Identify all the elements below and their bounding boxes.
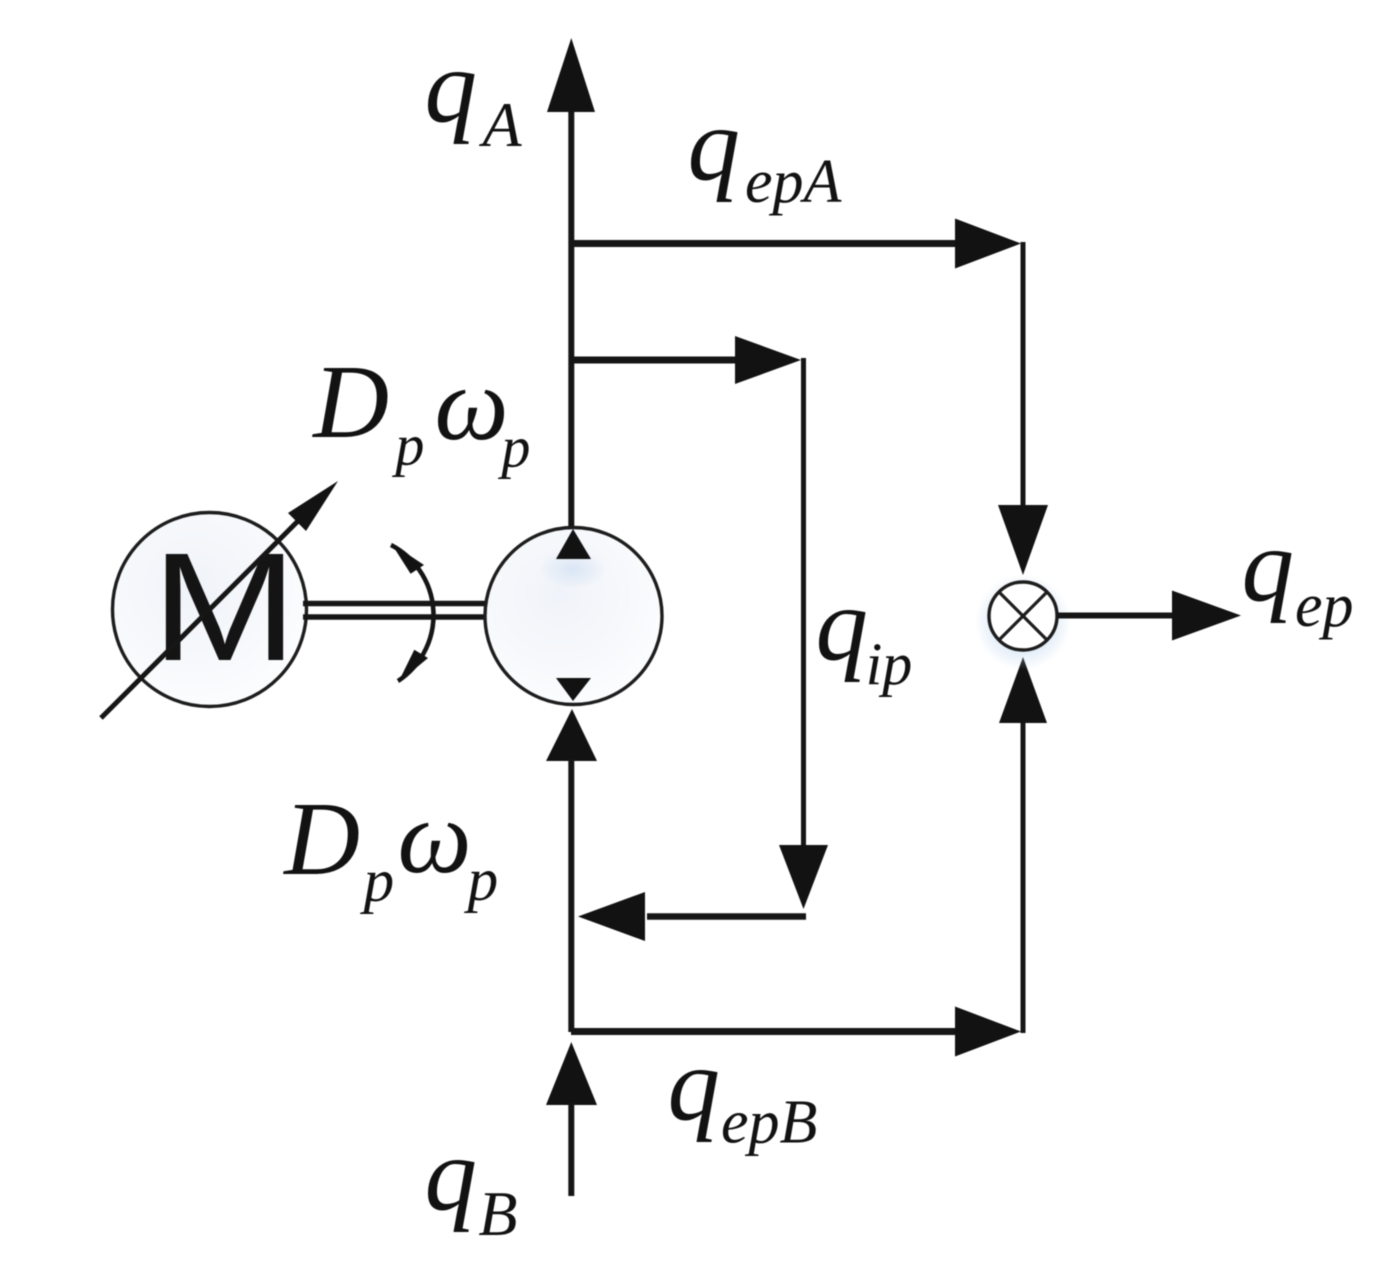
arrowhead q_ip right [735, 336, 801, 384]
svg-text:q: q [816, 566, 869, 683]
svg-text:ep: ep [1295, 572, 1354, 640]
pump top port blue blush [539, 549, 607, 589]
svg-text:D: D [282, 780, 360, 897]
summing junction (circle with X) [989, 582, 1057, 650]
svg-text:q: q [425, 1116, 478, 1233]
arrowhead up into q_epB junction [546, 1042, 597, 1105]
arrowhead down into junction [998, 505, 1048, 575]
wire: main line A (vertical, top) [568, 108, 574, 529]
motor variable diagonal arrow [101, 518, 301, 718]
svg-text:epA: epA [745, 148, 843, 216]
wire: q_ip vertical [801, 358, 806, 846]
svg-text:D: D [311, 343, 389, 460]
svg-text:ip: ip [866, 631, 913, 697]
svg-text:p: p [391, 413, 424, 478]
svg-text:q: q [688, 86, 741, 203]
svg-text:ω: ω [398, 778, 472, 895]
svg-text:p: p [360, 848, 395, 915]
motor M1 circle [113, 513, 307, 707]
pump port triangle bottom (points down) [556, 678, 591, 701]
pump P1 circle [485, 528, 662, 705]
svg-text:q: q [668, 1026, 721, 1143]
wire: q_ip return horizontal [647, 913, 806, 920]
arrowhead q_epB right [955, 1007, 1021, 1057]
pump port triangle top (points up) [556, 529, 591, 559]
arrowhead return left [578, 892, 645, 941]
wire: right vertical lower [1021, 723, 1026, 1033]
svg-text:q: q [1242, 507, 1295, 624]
svg-text:p: p [464, 847, 499, 914]
wire: output q_ep [1057, 613, 1174, 619]
wire: right vertical upper [1021, 242, 1026, 506]
shaft (double line) [303, 601, 487, 607]
arrowhead q_epA right [955, 219, 1021, 269]
svg-text:epB: epB [721, 1089, 817, 1157]
svg-text:p: p [497, 415, 530, 480]
wire: q_epB horizontal [571, 1028, 958, 1035]
wire: tap to q_ip [571, 357, 738, 364]
rotation arrow arc [391, 545, 433, 681]
arrowhead up into pump bottom [546, 709, 597, 761]
junction halo [975, 574, 1071, 670]
arrowhead q_ip down [779, 845, 828, 909]
arrowhead q_A up [547, 38, 595, 112]
svg-text:A: A [479, 89, 523, 160]
arrowhead up into junction [999, 657, 1047, 723]
wire: q_epA horizontal [571, 240, 958, 247]
svg-text:B: B [478, 1178, 517, 1249]
wire: main line B bottom tail [568, 1103, 574, 1196]
svg-text:ω: ω [435, 345, 509, 462]
wire: main line B (vertical, below pump) [568, 759, 574, 1032]
svg-text:q: q [425, 28, 478, 145]
arrowhead q_ep right [1172, 591, 1241, 641]
